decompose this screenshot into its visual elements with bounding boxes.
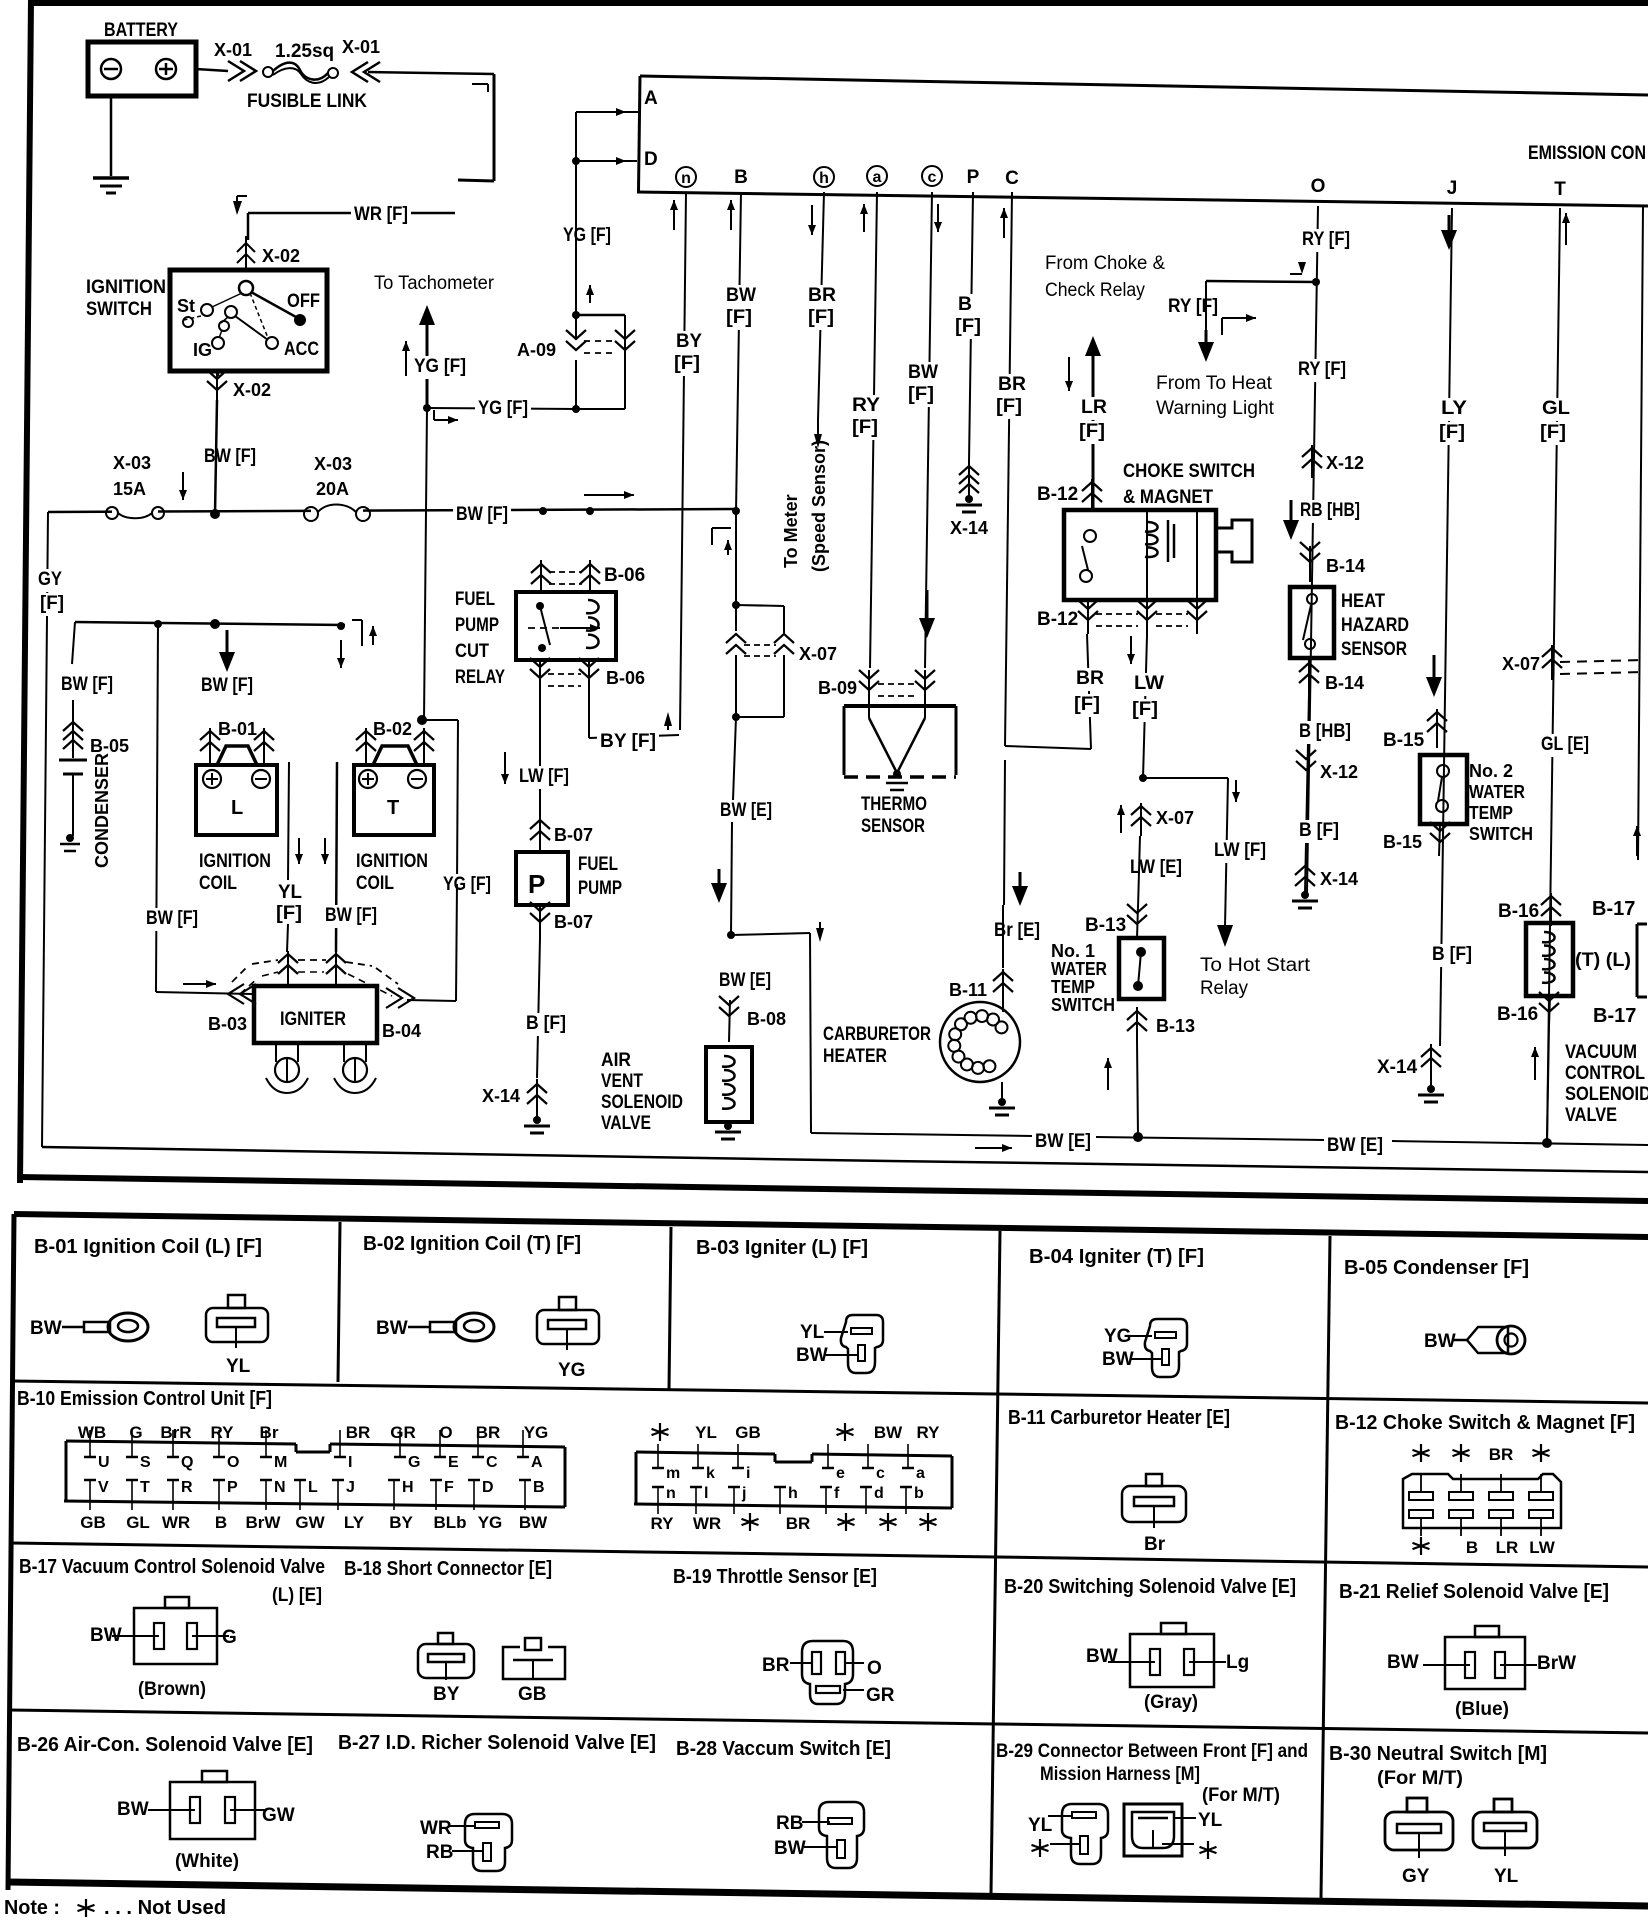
wire n-line vertical [680, 192, 686, 730]
label LY [F] [1436, 398, 1470, 445]
junction dot B-line bus [732, 507, 740, 515]
svg-text:m: m [666, 1465, 680, 1482]
table col line 3 [991, 1231, 1000, 1894]
svg-text:B-03: B-03 [208, 1014, 247, 1034]
arrow B-line [727, 200, 735, 230]
svg-text:YG: YG [478, 1513, 503, 1532]
wire GY vertical [42, 512, 48, 1147]
svg-text:B-28 Vaccum Switch [E]: B-28 Vaccum Switch [E] [676, 1738, 891, 1760]
svg-text:B-01: B-01 [218, 719, 257, 739]
wire RY branch horizontal [1206, 281, 1316, 330]
label No.2 WATER TEMP SWITCH [1469, 761, 1533, 844]
svg-text:[F]: [F] [1132, 699, 1158, 720]
svg-text:T: T [387, 797, 399, 819]
junction dot X-07 top [732, 601, 740, 609]
label B-12 lower [1037, 609, 1078, 630]
arrow big RY down [1198, 330, 1214, 362]
label HEAT HAZARD SENSOR [1341, 591, 1409, 660]
svg-text:YG [F]: YG [F] [443, 874, 491, 895]
label B-17 upper bold [1592, 898, 1635, 920]
cell B-02 header [363, 1233, 581, 1255]
label B-06 upper [604, 565, 645, 586]
cell B-19 header [673, 1566, 877, 1588]
terminal C label [1005, 168, 1019, 189]
B-18 connector 1 [418, 1633, 474, 1705]
svg-text:B-02 Ignition Coil (T) [F]: B-02 Ignition Coil (T) [F] [363, 1233, 581, 1255]
wire fusible link to corner [368, 72, 494, 74]
connector B-14 lower chevrons [1299, 659, 1319, 694]
wire carb heater feed [1003, 749, 1028, 968]
B-10 pin row bottom [84, 1479, 545, 1510]
connector B-13 lower chevrons [1127, 1007, 1147, 1040]
B-02 connector [537, 1297, 599, 1381]
svg-text:B-06: B-06 [604, 565, 645, 586]
svg-text:J: J [1447, 178, 1458, 199]
connector X-14 P chevrons [959, 462, 979, 497]
B-01 BW ring terminal [30, 1313, 148, 1341]
wire igniter-left BW vertical [156, 624, 158, 989]
svg-text:15A: 15A [113, 479, 146, 499]
label X-12 lower [1320, 762, 1358, 782]
svg-text:WB: WB [78, 1423, 106, 1442]
B-26 valve art [117, 1771, 295, 1872]
connector B-12 lower chevrons [1078, 600, 1207, 636]
svg-text:RB [HB]: RB [HB] [1300, 500, 1360, 521]
table col line 1 [338, 1222, 340, 1382]
choke connector plug [1216, 520, 1252, 562]
label B-11 [949, 980, 987, 1000]
svg-text:[F]: [F] [852, 417, 878, 438]
label RB [HB] [1283, 500, 1363, 540]
label BR [F] h-line [805, 285, 839, 330]
svg-text:BW [F]: BW [F] [204, 446, 256, 467]
svg-text:BW: BW [117, 1799, 149, 1820]
arrow big J mid [1426, 655, 1442, 697]
B-19 connector [762, 1641, 895, 1706]
connector X-07 loop B-line [726, 605, 794, 717]
node n (circled) [676, 167, 696, 187]
svg-text:GW: GW [262, 1805, 295, 1826]
svg-text:YG: YG [524, 1423, 549, 1442]
svg-text:LW: LW [1134, 673, 1164, 694]
junction dot bus/ignition wire [210, 509, 220, 519]
label To Meter rotated [781, 494, 801, 568]
wire BW-E run [811, 1133, 1648, 1145]
label BY [F] bold [597, 731, 659, 754]
svg-text:EMISSION CON: EMISSION CON [1528, 143, 1646, 164]
svg-text:B-04: B-04 [382, 1021, 421, 1041]
label B-15 upper [1383, 730, 1425, 751]
svg-text:[F]: [F] [1540, 422, 1566, 443]
svg-text:a: a [873, 169, 882, 186]
label BR [F] C-line [993, 374, 1029, 419]
svg-text:GL: GL [126, 1513, 150, 1532]
svg-text:BW [E]: BW [E] [719, 970, 771, 991]
table row line 4 [10, 1710, 1648, 1733]
svg-text:B-15: B-15 [1383, 730, 1425, 751]
connector X-07 LW chevrons [1117, 803, 1151, 836]
ignition switch box [170, 270, 327, 371]
ground - condenser [60, 834, 80, 851]
schematic outer left border [20, 0, 31, 1183]
svg-text:BATTERY: BATTERY [104, 20, 178, 41]
arrow small LR side [1065, 357, 1073, 391]
svg-text:From Choke &: From Choke & [1045, 253, 1165, 274]
svg-text:YL: YL [800, 1322, 825, 1343]
terminal T label [1554, 179, 1566, 200]
svg-text:Q: Q [181, 1454, 193, 1471]
bracket up at rail end [352, 620, 377, 646]
B-21 valve art [1387, 1626, 1576, 1720]
label B-16 upper [1498, 901, 1539, 922]
svg-text:B-06: B-06 [606, 668, 645, 688]
label BW[F] igniter-left [143, 908, 201, 931]
connector X-12 chevrons down [1296, 750, 1316, 770]
svg-text:BR: BR [1076, 668, 1104, 689]
svg-text:C: C [1005, 168, 1019, 189]
svg-text:CUT: CUT [455, 641, 489, 662]
label BW [E] upper [717, 800, 775, 823]
svg-text:BR: BR [998, 374, 1026, 395]
label YG [F] on wire [475, 398, 531, 421]
arrow big to tachometer [419, 305, 435, 408]
svg-text:BW: BW [1102, 1349, 1134, 1370]
cell B-21 header [1339, 1581, 1609, 1603]
connector B-15 upper chevrons [1427, 709, 1447, 748]
wire A-09 upper vertical [576, 161, 594, 315]
choke switch internals [1080, 512, 1197, 598]
label A-09 [517, 340, 556, 360]
junction dot rail/coil-L wire [210, 619, 220, 629]
arrow h-line top [808, 205, 816, 235]
svg-text:B-29 Connector Between Front [: B-29 Connector Between Front [F] and [996, 1741, 1308, 1762]
label B-02 [373, 719, 412, 739]
label X-03 15A [113, 453, 151, 499]
wire h-line vertical [814, 192, 824, 448]
igniter spark plug right [334, 1043, 376, 1093]
junction dot YG/A-09 line [423, 404, 431, 412]
connector X-12 chevrons up [1302, 445, 1322, 478]
connector B-08 chevrons [719, 996, 739, 1042]
label No.1 WATER TEMP SWITCH [1051, 941, 1115, 1015]
svg-text:V: V [98, 1479, 109, 1496]
svg-text:(L) [E]: (L) [E] [272, 1585, 322, 1606]
dashed stubs X-07 T [1560, 660, 1645, 674]
label RY [F] lower [1295, 359, 1349, 382]
B-02 BW ring terminal [376, 1313, 494, 1341]
label FUEL PUMP CUT RELAY [455, 589, 505, 688]
label BW[F] condenser branch [58, 674, 116, 697]
svg-text:B-02: B-02 [373, 719, 412, 739]
svg-text:B: B [533, 1479, 545, 1496]
label BW [E] lower [716, 970, 774, 993]
ignition switch pivot [239, 281, 253, 295]
svg-text:B-09: B-09 [818, 678, 857, 698]
label B-03 [208, 1014, 247, 1034]
svg-text:TEMP: TEMP [1469, 803, 1513, 823]
label YG [F] bold [402, 341, 469, 379]
svg-text:GB: GB [80, 1513, 106, 1532]
svg-text:RY [F]: RY [F] [1298, 359, 1346, 380]
corner arrow under YG wire [434, 410, 458, 424]
svg-text:COIL: COIL [199, 873, 237, 894]
svg-text:HEATER: HEATER [823, 1046, 887, 1067]
label To Tachometer [374, 273, 495, 294]
svg-text:RY [F]: RY [F] [1302, 229, 1350, 250]
thermo sensor box [844, 706, 956, 777]
ground - P line X-14 [956, 495, 982, 512]
svg-text:[F]: [F] [808, 307, 834, 328]
battery label [104, 20, 178, 41]
svg-text:BrR: BrR [160, 1423, 191, 1442]
connector B-09 chevrons [859, 670, 935, 705]
label X-14 pump [482, 1086, 520, 1106]
svg-text:GL [E]: GL [E] [1541, 734, 1589, 755]
B-29 connector 1 [1028, 1804, 1108, 1864]
B-11 connector [1122, 1474, 1186, 1555]
svg-text:To Tachometer: To Tachometer [374, 273, 495, 294]
svg-text:c: c [876, 1465, 885, 1482]
wire igniter left feed [156, 980, 252, 994]
svg-text:LY: LY [344, 1513, 365, 1532]
svg-text:B-08: B-08 [747, 1009, 786, 1029]
wire YG tach vertical [424, 408, 427, 720]
ground - air vent solenoid [715, 1122, 741, 1139]
connector X-02 lower chevrons [207, 370, 227, 404]
junction dot X-07 bottom [732, 713, 740, 721]
label LW [E] [1127, 857, 1185, 880]
svg-text:SOLENOID: SOLENOID [1565, 1084, 1648, 1105]
svg-text:i: i [746, 1465, 750, 1482]
svg-text:a: a [916, 1465, 925, 1482]
connector chevrons above igniter BW [326, 951, 346, 988]
label B-07 lower [554, 912, 593, 932]
svg-text:BR: BR [346, 1423, 371, 1442]
wire heat hazard to ground [1305, 694, 1309, 893]
table top border [14, 1214, 1648, 1237]
svg-text:LR: LR [1496, 1538, 1519, 1557]
svg-text:BLb: BLb [433, 1513, 466, 1532]
svg-text:A-09: A-09 [517, 340, 556, 360]
svg-text:To Hot Start: To Hot Start [1200, 955, 1311, 976]
svg-text:GL: GL [1542, 398, 1570, 419]
svg-text:FUSIBLE LINK: FUSIBLE LINK [247, 91, 367, 112]
wire C to BR jog [1005, 746, 1091, 749]
junction dot A-09 bottom [572, 405, 580, 413]
wire T-line vertical [1547, 208, 1570, 1140]
svg-text:HEAT: HEAT [1341, 591, 1385, 612]
svg-text:B-11 Carburetor Heater [E]: B-11 Carburetor Heater [E] [1008, 1407, 1230, 1429]
svg-text:B-16: B-16 [1497, 1004, 1538, 1025]
svg-text:B-20 Switching Solenoid Valve: B-20 Switching Solenoid Valve [E] [1004, 1576, 1296, 1598]
svg-text:LY: LY [1441, 398, 1467, 419]
svg-text:J: J [346, 1479, 355, 1496]
connector X-14 J chevrons [1421, 1044, 1441, 1086]
fuel pump box [516, 852, 568, 905]
svg-text:P: P [528, 869, 545, 899]
ignition switch contact mid2 [219, 321, 229, 331]
svg-text:IGNITER: IGNITER [280, 1009, 346, 1030]
B-10 connector box 2 [634, 1452, 952, 1508]
cell B-01 header [34, 1236, 262, 1258]
junction dot A-09 top [572, 311, 580, 319]
svg-text:X-12: X-12 [1320, 762, 1358, 782]
arrow small on BW wire [179, 472, 187, 500]
wire right edge vertical [1633, 206, 1643, 860]
svg-text:IGNITION: IGNITION [199, 851, 271, 872]
svg-text:Check Relay: Check Relay [1045, 280, 1145, 301]
svg-text:BW [F]: BW [F] [146, 908, 198, 929]
label B-14 upper [1326, 556, 1365, 576]
connector X-01 right chevrons [352, 62, 380, 82]
svg-text:WATER: WATER [1469, 782, 1525, 802]
connector B-11 chevrons [993, 969, 1013, 1000]
label X-07 T [1502, 654, 1540, 674]
svg-text:X-03: X-03 [113, 453, 151, 473]
junction dot rail right end [337, 622, 345, 630]
arrow jog RY right [1290, 256, 1306, 274]
svg-text:THERMO: THERMO [861, 794, 927, 815]
wire B-line to bus [736, 192, 741, 512]
svg-text:B-04 Igniter (T) [F]: B-04 Igniter (T) [F] [1029, 1246, 1204, 1268]
svg-text:BW: BW [519, 1513, 548, 1532]
svg-text:BW: BW [908, 362, 938, 383]
cell B-05 header [1344, 1257, 1529, 1279]
svg-text:BW: BW [1424, 1331, 1456, 1352]
wire BW coil T to igniter [321, 762, 337, 952]
svg-text:X-07: X-07 [1156, 808, 1194, 828]
B-05 condenser art [1424, 1326, 1525, 1354]
svg-text:BW [E]: BW [E] [1035, 1131, 1091, 1152]
svg-text:B-07: B-07 [554, 825, 593, 845]
page top border strip [28, 0, 1648, 6]
svg-text:X-01: X-01 [342, 37, 380, 57]
label RY(F) O-line [1299, 229, 1353, 252]
connector B-05 chevrons [63, 700, 83, 758]
ignition switch label [86, 277, 166, 320]
svg-text:[F]: [F] [40, 593, 64, 614]
label BW[F] above bus [204, 446, 256, 467]
emission control unit box (B-10) outline [637, 76, 1648, 206]
svg-text:f: f [834, 1485, 840, 1502]
igniter spark plug left [266, 1043, 308, 1093]
svg-text:B [F]: B [F] [526, 1013, 566, 1034]
carburetor heater inner coil [948, 1010, 1007, 1074]
ignition switch linkages [184, 293, 268, 340]
svg-text:BW: BW [726, 285, 756, 306]
B-01 connector [206, 1295, 268, 1377]
svg-text:e: e [836, 1465, 845, 1482]
label RY [F] branch [1168, 296, 1218, 317]
label B-07 upper [554, 825, 593, 845]
label FUEL PUMP [578, 854, 622, 899]
svg-text:c: c [928, 169, 937, 186]
label AIR VENT SOLENOID VALVE [601, 1050, 683, 1134]
svg-text:IGNITION: IGNITION [356, 851, 428, 872]
svg-text:To Meter: To Meter [781, 494, 801, 568]
svg-text:CONDENSER: CONDENSER [92, 753, 112, 868]
ignition switch contact ACC [266, 337, 319, 360]
svg-text:SENSOR: SENSOR [861, 816, 925, 837]
label X-07 LW [1156, 808, 1194, 828]
wire BR choke vertical [1087, 634, 1091, 749]
B-12 bottom labels [1413, 1537, 1556, 1557]
label CARBURETOR HEATER [823, 1024, 931, 1067]
svg-text:ACC: ACC [284, 339, 319, 360]
label YG [F] upper [560, 225, 614, 248]
svg-text:YG: YG [1104, 1326, 1131, 1347]
wire ignition switch to X-02 bottom [217, 371, 220, 376]
svg-text:YL: YL [1028, 1815, 1053, 1836]
B-10 box2 pin row top [652, 1444, 925, 1482]
svg-text:O: O [439, 1423, 452, 1442]
ignition switch contact small1 [183, 317, 193, 327]
wire BW[F] ignition to bus [215, 400, 217, 514]
wire vacuum valve to BW-E [1531, 1026, 1549, 1143]
cell B-20 header [1004, 1576, 1296, 1598]
label BW[F] coil T lower [322, 905, 380, 928]
label B-08 [747, 1009, 786, 1029]
junction dot rail/igniter-left wire [154, 620, 162, 628]
svg-text:B [HB]: B [HB] [1299, 721, 1351, 742]
wire YG[F] horizontal to A-09 branch [427, 408, 576, 409]
svg-text:B [F]: B [F] [1432, 944, 1472, 965]
cell B-29 header [996, 1741, 1308, 1806]
svg-text:X-14: X-14 [482, 1086, 520, 1106]
svg-text:B-05 Condenser [F]: B-05 Condenser [F] [1344, 1257, 1529, 1279]
label YG [F] igniter [440, 874, 494, 897]
svg-text:Note :: Note : [4, 1897, 60, 1919]
arrow big LR up [1085, 336, 1101, 510]
svg-text:WR: WR [162, 1513, 190, 1532]
cell B-26 header [17, 1734, 313, 1756]
svg-text:BW [F]: BW [F] [325, 905, 377, 926]
svg-text:FUEL: FUEL [578, 854, 618, 875]
wire LW to B-13 [1138, 836, 1140, 908]
label B[F] J-line [1429, 944, 1475, 967]
svg-text:(Speed Sensor): (Speed Sensor) [809, 440, 829, 572]
svg-text:[F]: [F] [908, 384, 934, 405]
svg-text:X-14: X-14 [1377, 1057, 1418, 1078]
svg-text:1.25sq: 1.25sq [275, 41, 334, 62]
svg-text:b: b [914, 1485, 924, 1502]
ignition switch OFF lever [251, 291, 320, 326]
svg-text:Br: Br [260, 1423, 279, 1442]
fuse X-03 15A [106, 507, 164, 519]
svg-text:X-03: X-03 [314, 454, 352, 474]
connector B-15 lower chevrons [1430, 822, 1450, 856]
svg-text:B-17 Vacuum Control Solenoid V: B-17 Vacuum Control Solenoid Valve [19, 1556, 325, 1578]
label BW [F] on bus [453, 504, 511, 527]
svg-text:LW: LW [1529, 1538, 1555, 1557]
label YL [F] bold [273, 882, 305, 926]
svg-text:[F]: [F] [955, 316, 981, 337]
wire a-line vertical [860, 192, 877, 668]
B-10 connector box 1 [64, 1441, 565, 1507]
svg-text:B-12 Choke Switch & Magnet [F]: B-12 Choke Switch & Magnet [F] [1335, 1412, 1635, 1434]
label IGNITION COIL L [199, 851, 271, 894]
svg-text:D: D [482, 1479, 494, 1496]
B-03 labels [796, 1322, 858, 1366]
svg-text:E: E [448, 1454, 459, 1471]
svg-text:& MAGNET: & MAGNET [1123, 487, 1213, 508]
wire B-13 to BW-E line [1104, 1040, 1138, 1137]
svg-text:(Gray): (Gray) [1144, 1692, 1198, 1713]
svg-text:BY: BY [433, 1684, 460, 1705]
svg-text:B-14: B-14 [1325, 673, 1364, 693]
svg-text:O: O [1311, 176, 1326, 197]
svg-text:B-18 Short Connector [E]: B-18 Short Connector [E] [344, 1558, 552, 1580]
